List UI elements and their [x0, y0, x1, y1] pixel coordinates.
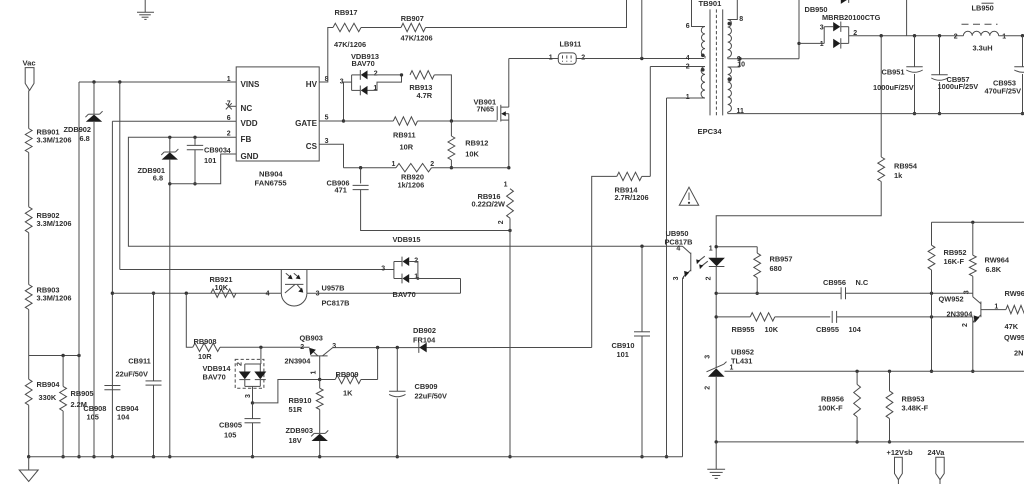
svg-text:U957B: U957B — [322, 283, 345, 292]
op-amp U957B PC817B opto — [281, 270, 349, 308]
wire RB914 right riser — [642, 175, 651, 177]
ground (chassis) bottom-left — [19, 457, 38, 482]
wire tie RB905/col79 — [29, 355, 79, 357]
junction FB-ZDB901 — [168, 136, 171, 139]
wire UB950 LED cathode col — [715, 267, 717, 362]
junction coll-RB909 — [376, 346, 379, 349]
capacitor CB906 — [327, 178, 369, 194]
svg-text:MBRB20100CTG: MBRB20100CTG — [822, 13, 881, 22]
junction tie-col79 — [77, 354, 80, 357]
wire UB950 emitter col — [682, 278, 684, 457]
wire Vac column — [28, 90, 30, 128]
svg-text:7N65: 7N65 — [477, 104, 495, 113]
wire primary ground rail — [29, 456, 683, 458]
junction FBline-CB910 — [640, 245, 643, 248]
svg-text:UB952: UB952 — [731, 348, 754, 357]
svg-text:3.48K-F: 3.48K-F — [902, 404, 929, 413]
resistor RB903 — [25, 285, 71, 310]
svg-text:2: 2 — [300, 344, 304, 351]
wire VDB913 anode1 staircase — [368, 75, 402, 91]
wire ZDB902 top — [93, 82, 95, 114]
wire RB952 lower — [931, 270, 933, 371]
wire line-317 — [716, 316, 750, 318]
capacitor CB904 — [116, 381, 162, 421]
wire VDB915 pin2 join — [409, 262, 419, 280]
svg-text:5: 5 — [325, 115, 329, 122]
svg-text:1: 1 — [310, 371, 317, 375]
wire RB907 to top — [426, 0, 627, 28]
svg-text:RB955: RB955 — [732, 325, 755, 334]
capacitor CB903 — [187, 145, 227, 165]
resistor RB921 — [210, 275, 237, 297]
wire CB903 top — [194, 137, 196, 145]
junction ref-RB956 — [855, 370, 858, 373]
transistor UB950 phototransistor — [683, 246, 691, 278]
pin 2 DB950 — [853, 30, 857, 37]
svg-text:TB901: TB901 — [699, 0, 723, 8]
capacitor CB953 — [985, 36, 1024, 114]
svg-text:2N3904: 2N3904 — [947, 310, 974, 319]
wire col-973 upper — [972, 222, 974, 255]
junction coll-CB909 — [396, 346, 399, 349]
pin 2 VDB914 — [237, 362, 244, 366]
svg-text:6: 6 — [686, 23, 690, 30]
pin 1 TB901 — [686, 94, 690, 101]
wire CB904 column — [153, 293, 155, 457]
inductor LB911 — [558, 39, 581, 64]
resistor RB904 — [25, 379, 60, 405]
svg-text:3.3M/1206: 3.3M/1206 — [37, 219, 72, 228]
diode VDB914 (BAV70) dashed box — [203, 347, 267, 403]
junction col79-rail — [77, 455, 80, 458]
ground (earth) TL431 — [707, 442, 725, 479]
svg-text:BAV70: BAV70 — [352, 59, 375, 68]
zener ZDB901 — [138, 149, 179, 183]
wire RB904-rail — [28, 405, 30, 457]
pin 1 LB950 — [1002, 33, 1006, 40]
junction RB908-VDB914 — [259, 346, 262, 349]
wire RB909 riser — [377, 348, 379, 380]
pin 4 TB901 — [686, 55, 690, 62]
junction tie-RB905 — [61, 354, 64, 357]
pin 1 VDB913 — [373, 85, 377, 92]
svg-text:4: 4 — [676, 246, 680, 253]
pin 2 VDB913 — [374, 71, 378, 78]
svg-text:10R: 10R — [198, 352, 212, 361]
svg-text:ZDB903: ZDB903 — [286, 426, 314, 435]
resistor RB908 — [193, 337, 220, 361]
svg-text:CB910: CB910 — [612, 341, 635, 350]
diode DB902 FR104 — [413, 326, 436, 353]
pin 2 QB903 — [300, 344, 304, 351]
svg-text:2: 2 — [227, 131, 231, 138]
wire ZDB903-rail — [319, 441, 321, 457]
wire VB901 source — [508, 120, 510, 168]
resistor RB920 — [396, 164, 432, 190]
resistor RB953 — [886, 371, 929, 442]
wire cut output drop — [906, 0, 908, 36]
diode output partial top — [841, 0, 849, 4]
zener ZDB902 — [64, 111, 103, 143]
svg-text:4: 4 — [686, 55, 690, 62]
svg-text:1000uF/25V: 1000uF/25V — [873, 83, 914, 92]
warning triangle — [679, 187, 698, 205]
svg-text:6.8: 6.8 — [153, 174, 163, 183]
svg-text:2: 2 — [954, 33, 958, 40]
svg-text:1: 1 — [1002, 33, 1006, 40]
svg-text:8: 8 — [739, 16, 743, 23]
svg-text:ZDB902: ZDB902 — [64, 125, 92, 134]
svg-text:11: 11 — [737, 108, 745, 115]
junction rail-RB954 — [880, 34, 883, 37]
junction CB904-rail — [152, 455, 155, 458]
wire RB908-QB903 — [220, 346, 310, 348]
svg-text:47K: 47K — [1005, 322, 1019, 331]
pin 1 RB916 — [504, 182, 508, 189]
pin 10 TB901 — [737, 61, 745, 68]
pin 4 UB950 — [676, 246, 680, 253]
junction source-CSline — [507, 166, 510, 169]
svg-text:CB955: CB955 — [816, 325, 839, 334]
pin 3 UB950 — [673, 276, 680, 280]
wire VDB915 pin1 drop — [460, 279, 462, 294]
junction base-RB909line — [318, 378, 321, 381]
wire line-293 left — [716, 292, 841, 294]
wire VB901 drain — [508, 59, 510, 108]
svg-text:RB957: RB957 — [770, 255, 793, 264]
pin 2 LB950 — [954, 33, 958, 40]
pin 3 VDB914 — [245, 394, 252, 398]
wire CS line — [344, 167, 397, 169]
resistor RB901 — [25, 128, 71, 153]
svg-text:3.3M/1206: 3.3M/1206 — [37, 136, 72, 145]
svg-text:FB: FB — [241, 135, 252, 144]
svg-text:QW952: QW952 — [939, 294, 964, 303]
resistor RB911 — [393, 117, 418, 152]
svg-text:LB950: LB950 — [972, 4, 994, 13]
svg-text:RB954: RB954 — [894, 161, 918, 170]
svg-text:3: 3 — [332, 343, 336, 350]
transformer EPC34 label — [698, 127, 723, 136]
junction 222-col973 — [971, 221, 974, 224]
junction rail-CB951 — [913, 34, 916, 37]
junction ref-RB953 — [888, 370, 891, 373]
capacitor CB908 — [83, 386, 120, 422]
op-amp U NB904 FAN6755 box — [236, 67, 319, 187]
wire RB954 to LED — [716, 182, 881, 258]
pin 3 QW952 — [963, 290, 970, 294]
wire REF line — [725, 370, 1024, 372]
junction ZDB902-rail — [92, 455, 95, 458]
diode UB950 LED — [708, 258, 725, 267]
pin 2 FB — [227, 131, 231, 138]
diode VDB915 (BAV70) — [393, 235, 421, 299]
junction 230line-RB916col — [508, 229, 511, 232]
wire RB903-tie — [28, 310, 30, 380]
wire VINS line — [79, 81, 236, 83]
junction RB921line-RB908 — [185, 292, 188, 295]
svg-text:RB917: RB917 — [335, 8, 358, 17]
wire ZDB902-rail — [93, 122, 95, 457]
junction CB905-rail — [251, 455, 254, 458]
wire column VINS-left — [78, 82, 80, 457]
wire GATE stub — [319, 120, 343, 122]
transformer secondary winding 8-9 — [728, 0, 800, 59]
svg-text:3: 3 — [963, 290, 970, 294]
svg-text:2: 2 — [430, 161, 434, 168]
wire RB901-RB902 — [28, 153, 30, 207]
svg-text:0.22Ω/2W: 0.22Ω/2W — [472, 200, 505, 209]
pin 3 CS — [325, 138, 329, 145]
resistor RB917 — [333, 8, 366, 49]
pin 9 TB901 — [737, 56, 741, 63]
pin 1 LB911 — [549, 55, 553, 62]
svg-text:RB905: RB905 — [71, 389, 94, 398]
resistor RB907 — [401, 14, 433, 43]
wire top drop to LB911 line — [641, 0, 643, 59]
pin 1 RB920 — [392, 161, 396, 168]
svg-text:2: 2 — [498, 220, 505, 224]
svg-text:FR104: FR104 — [413, 336, 436, 345]
wire RB917-RB907 — [361, 27, 401, 29]
svg-text:3: 3 — [245, 394, 252, 398]
pin 1 UB950 — [709, 246, 713, 253]
svg-text:47K/1206: 47K/1206 — [401, 33, 433, 42]
svg-text:RB952: RB952 — [944, 248, 967, 257]
wire RB908 branch — [186, 293, 192, 347]
svg-text:1: 1 — [730, 364, 734, 371]
svg-text:6.8K: 6.8K — [986, 265, 1002, 274]
svg-text:2: 2 — [237, 362, 244, 366]
wire output rail — [849, 35, 964, 37]
svg-text:BAV70: BAV70 — [393, 290, 416, 299]
node +12Vsb connector — [887, 448, 914, 484]
svg-text:1K: 1K — [343, 388, 353, 397]
wire CB903 bottom — [194, 150, 196, 184]
capacitor CB911 labels — [116, 356, 151, 378]
svg-text:2: 2 — [686, 63, 690, 70]
svg-text:RB910: RB910 — [289, 396, 312, 405]
ground (earth) top-left — [137, 0, 154, 19]
wire RB905-rail — [62, 411, 64, 457]
pin 2 UB952 — [704, 386, 711, 390]
svg-text:1: 1 — [504, 182, 508, 189]
transformer primary winding 2-1 — [650, 67, 705, 99]
junction LED-317line — [715, 315, 718, 318]
svg-text:RB953: RB953 — [902, 394, 925, 403]
resistor RB957 — [754, 247, 793, 294]
pin 1 VINS — [227, 76, 231, 83]
wire U957B pin3 line — [307, 292, 461, 294]
pin 1 QW952 — [994, 303, 998, 310]
svg-text:2N3904: 2N3904 — [285, 357, 312, 366]
svg-text:Vac: Vac — [23, 58, 36, 67]
svg-text:CB956: CB956 — [823, 278, 846, 287]
wire GATE-RB911 — [344, 120, 394, 122]
node 24Va connector — [928, 448, 946, 484]
svg-text:BAV70: BAV70 — [203, 373, 226, 382]
wire RB920-source — [432, 167, 509, 169]
svg-text:RB904: RB904 — [37, 380, 61, 389]
junction CB951-gnd — [913, 112, 916, 115]
light arrows UB950 — [696, 256, 708, 269]
pin 5 GATE — [325, 115, 329, 122]
svg-text:RB907: RB907 — [401, 14, 424, 23]
svg-text:471: 471 — [335, 186, 347, 195]
pin 1 DB950 — [820, 41, 824, 48]
svg-text:104: 104 — [117, 412, 130, 421]
wire LED anode tie — [715, 245, 758, 248]
wire QW952 emitter col — [972, 317, 974, 371]
svg-text:RB912: RB912 — [465, 139, 488, 148]
capacitor CB909 — [389, 348, 447, 457]
wire secondary gnd rail lower — [716, 441, 1024, 443]
junction CB957-gnd — [938, 112, 941, 115]
resistor RB916 — [472, 189, 514, 219]
pin 7 NC — [226, 100, 236, 109]
junction RB912-CSline — [450, 166, 453, 169]
diode DB950 MBRB20100CTG — [805, 5, 881, 49]
svg-text:NC: NC — [241, 104, 253, 113]
svg-text:2.7R/1206: 2.7R/1206 — [615, 193, 649, 202]
svg-text:2N: 2N — [1014, 348, 1023, 357]
svg-text:TL431: TL431 — [731, 357, 752, 366]
wire RB913 to gate — [434, 75, 451, 121]
wire LB950 out — [999, 35, 1024, 37]
pin 6 VDD — [227, 115, 231, 122]
junction RB916-rail — [508, 455, 511, 458]
pin 1 VDB915 — [414, 273, 418, 280]
svg-text:1: 1 — [227, 76, 231, 83]
pin 2 TB901 — [686, 63, 690, 70]
svg-text:LB911: LB911 — [560, 39, 582, 48]
svg-text:4.7R: 4.7R — [417, 91, 433, 100]
svg-text:3.3uH: 3.3uH — [973, 44, 993, 53]
svg-text:QW95: QW95 — [1004, 333, 1024, 342]
svg-text:10: 10 — [737, 61, 745, 68]
svg-text:1: 1 — [686, 94, 690, 101]
pin 2 UB950 — [706, 276, 713, 280]
svg-text:N.C: N.C — [856, 278, 869, 287]
svg-text:RB908: RB908 — [194, 337, 217, 346]
wire VDB913 anode2 — [368, 74, 402, 76]
transformer TB901 label — [699, 0, 723, 8]
resistor RB909 — [320, 370, 378, 397]
resistor RB952 — [928, 245, 966, 270]
svg-text:1: 1 — [820, 41, 824, 48]
junction CB908-rail — [111, 455, 114, 458]
junction 317-col931 — [930, 315, 933, 318]
resistor RB912 — [448, 121, 488, 168]
pin 3 VDB913 — [340, 79, 344, 86]
junction FB-CB903 — [193, 136, 196, 139]
transformer TB901 core — [710, 9, 723, 115]
wire col-931 — [931, 222, 933, 245]
wire VDD stub — [112, 120, 236, 122]
resistor RW96x 47K — [1005, 289, 1024, 331]
wire VINS-VDB915 horiz — [120, 269, 394, 271]
wire QB903 collector line — [333, 347, 592, 349]
svg-text:4: 4 — [227, 148, 231, 155]
pin 6 TB901 — [686, 23, 690, 30]
resistor RB955 — [732, 313, 779, 334]
node Vac input connector — [23, 58, 36, 90]
junction VINS-ZDB902 — [92, 80, 95, 83]
capacitor CB955 — [816, 311, 862, 334]
wire RB911-gate — [418, 120, 498, 122]
wire ZDB901 top — [169, 137, 171, 152]
junction RB953-gnd — [888, 440, 891, 443]
svg-text:1k/1206: 1k/1206 — [398, 180, 425, 189]
svg-text:CB903: CB903 — [204, 145, 227, 154]
junction col973-refline — [971, 370, 974, 373]
svg-text:22uF/50V: 22uF/50V — [415, 392, 448, 401]
junction col931-refline — [930, 370, 933, 373]
svg-text:GND: GND — [241, 152, 259, 161]
inductor LB950 — [962, 3, 999, 52]
wire FB route — [128, 137, 682, 246]
junction rectifier anode — [797, 42, 800, 45]
capacitor CB957 — [931, 36, 978, 114]
resistor RB913 — [409, 71, 434, 100]
svg-text:3.3M/1206: 3.3M/1206 — [37, 294, 72, 303]
svg-text:3: 3 — [820, 24, 824, 31]
svg-text:DB902: DB902 — [413, 326, 436, 335]
svg-text:RB911: RB911 — [393, 130, 416, 139]
svg-text:101: 101 — [617, 350, 629, 359]
wire line-293 right — [845, 292, 972, 294]
pin 8 TB901 — [739, 16, 743, 23]
capacitor CB905 — [219, 403, 261, 457]
wire GND route — [170, 154, 236, 184]
wire VDB913 pin3 column — [343, 82, 345, 121]
svg-text:CB909: CB909 — [415, 382, 438, 391]
svg-text:CS: CS — [306, 142, 318, 151]
svg-text:470uF/25V: 470uF/25V — [985, 87, 1022, 96]
junction LB911line-top — [640, 57, 643, 60]
svg-text:RW96: RW96 — [1005, 289, 1024, 298]
svg-text:22uF/50V: 22uF/50V — [116, 369, 149, 378]
transistor QW95x labels — [1004, 333, 1024, 357]
svg-text:FAN6755: FAN6755 — [255, 178, 288, 187]
wire column VDD — [111, 121, 113, 457]
wire VDB914 staircase — [253, 380, 320, 403]
junction CB909-rail — [396, 455, 399, 458]
svg-text:4: 4 — [266, 291, 270, 298]
svg-text:1: 1 — [709, 246, 713, 253]
transistor QW952 2N3904 — [939, 294, 1006, 323]
junction 293-col931 — [930, 292, 933, 295]
svg-text:RW964: RW964 — [985, 256, 1010, 265]
svg-text:16K-F: 16K-F — [944, 257, 965, 266]
pin 3 QB903 — [332, 343, 336, 350]
svg-text:3: 3 — [316, 291, 320, 298]
svg-text:1: 1 — [994, 303, 998, 310]
svg-text:VINS: VINS — [241, 80, 260, 89]
wire pin1 drop — [666, 98, 668, 457]
resistor RB956 — [818, 371, 861, 442]
svg-text:680: 680 — [770, 264, 782, 273]
svg-text:3: 3 — [381, 266, 385, 273]
junction TL431-gnd-rail — [715, 440, 718, 443]
junction GATE-VDB913 — [342, 119, 345, 122]
svg-text:HV: HV — [306, 80, 318, 89]
transformer secondary winding 10-11 — [728, 59, 740, 114]
svg-text:10K: 10K — [215, 283, 229, 292]
svg-text:CB951: CB951 — [882, 67, 905, 76]
svg-text:CB911: CB911 — [128, 356, 151, 365]
pin 1 QB903 — [310, 371, 317, 375]
